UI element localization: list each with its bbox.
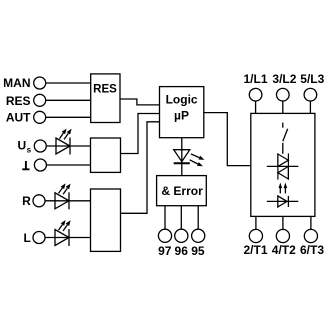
terminal 95 (192, 229, 205, 242)
terminal 97 (158, 229, 171, 242)
LED indicator R (55, 183, 71, 209)
svg-text:96: 96 (175, 244, 189, 258)
svg-text:U: U (18, 139, 27, 153)
terminal 5/L3 (304, 88, 317, 101)
terminal 2/T1 (249, 229, 262, 242)
box Logic uP (160, 87, 204, 138)
wire 3/L2 stem (282, 101, 284, 113)
wire AUT to RES box (46, 116, 91, 118)
wire RES to RES box (46, 99, 91, 101)
svg-text:2/T1: 2/T1 (243, 243, 267, 257)
terminal AUT (34, 111, 46, 123)
wire Logic to power block (204, 113, 251, 166)
svg-text:3/L2: 3/L2 (272, 72, 296, 86)
svg-text:MAN: MAN (3, 76, 30, 90)
svg-text:R: R (22, 194, 31, 208)
svg-text:6/T3: 6/T3 (300, 243, 324, 257)
terminal 96 (175, 229, 188, 242)
wire supply box to Logic (121, 114, 160, 154)
svg-text:Logic: Logic (166, 92, 198, 106)
wire R/L box to Logic (121, 122, 160, 214)
terminal 3/L2 (277, 88, 290, 101)
box & Error (157, 176, 207, 206)
opto trigger arrows (279, 183, 288, 194)
svg-text:RES: RES (93, 83, 117, 95)
terminal L (33, 232, 45, 244)
svg-text:s: s (27, 145, 32, 154)
svg-text:RES: RES (6, 94, 31, 108)
wire 6/T3 stem (310, 216, 312, 229)
terminal 6/T3 (304, 229, 317, 242)
LED indicator Us (56, 129, 72, 155)
box RES (reset logic) (91, 74, 120, 123)
terminal Us (34, 140, 46, 152)
box R/L control (91, 189, 121, 251)
svg-text:95: 95 (191, 244, 205, 258)
wire 4/T2 stem (282, 216, 284, 229)
terminal 0V (34, 159, 46, 171)
terminal MAN (34, 77, 46, 89)
svg-text:97: 97 (158, 244, 172, 258)
wire 2/T1 stem (255, 216, 257, 229)
wire 1/L1 stem (255, 101, 257, 113)
wire & Error to 95 (197, 206, 199, 230)
LED indicator error (down-pointing with arrows) (174, 150, 205, 167)
terminal R (33, 195, 45, 207)
wire R to R/L box (45, 200, 90, 202)
wire 5/L3 stem (309, 101, 311, 113)
switch contact (mechanical bypass) (283, 123, 288, 154)
wire Us to supply box (47, 145, 91, 147)
terminal 1/L1 (249, 88, 262, 101)
terminal RES (34, 94, 46, 106)
svg-text:AUT: AUT (6, 110, 31, 124)
box supply Us (91, 138, 121, 172)
svg-text:4/T2: 4/T2 (272, 243, 296, 257)
triac (anti-parallel thyristor pair) (267, 153, 299, 179)
LED indicator L (55, 220, 71, 246)
opto diode (trigger LED) (267, 196, 299, 207)
terminal 4/T2 (276, 229, 289, 242)
wire & Error to 96 (180, 206, 182, 230)
svg-text:µP: µP (174, 109, 189, 123)
svg-text:5/L3: 5/L3 (300, 72, 324, 86)
wire MAN to RES box (46, 82, 91, 84)
svg-text:& Error: & Error (161, 184, 203, 198)
label 0V (perpendicular symbol) (22, 161, 29, 169)
wire Logic to & Error box (181, 138, 183, 176)
svg-text:1/L1: 1/L1 (243, 72, 267, 86)
svg-text:L: L (23, 231, 30, 245)
wire RES box to Logic (120, 99, 160, 105)
box main power block (251, 113, 315, 216)
wire & Error to 97 (164, 206, 166, 230)
wire 0V to supply box (47, 164, 91, 166)
wire L to R/L box (45, 237, 90, 239)
